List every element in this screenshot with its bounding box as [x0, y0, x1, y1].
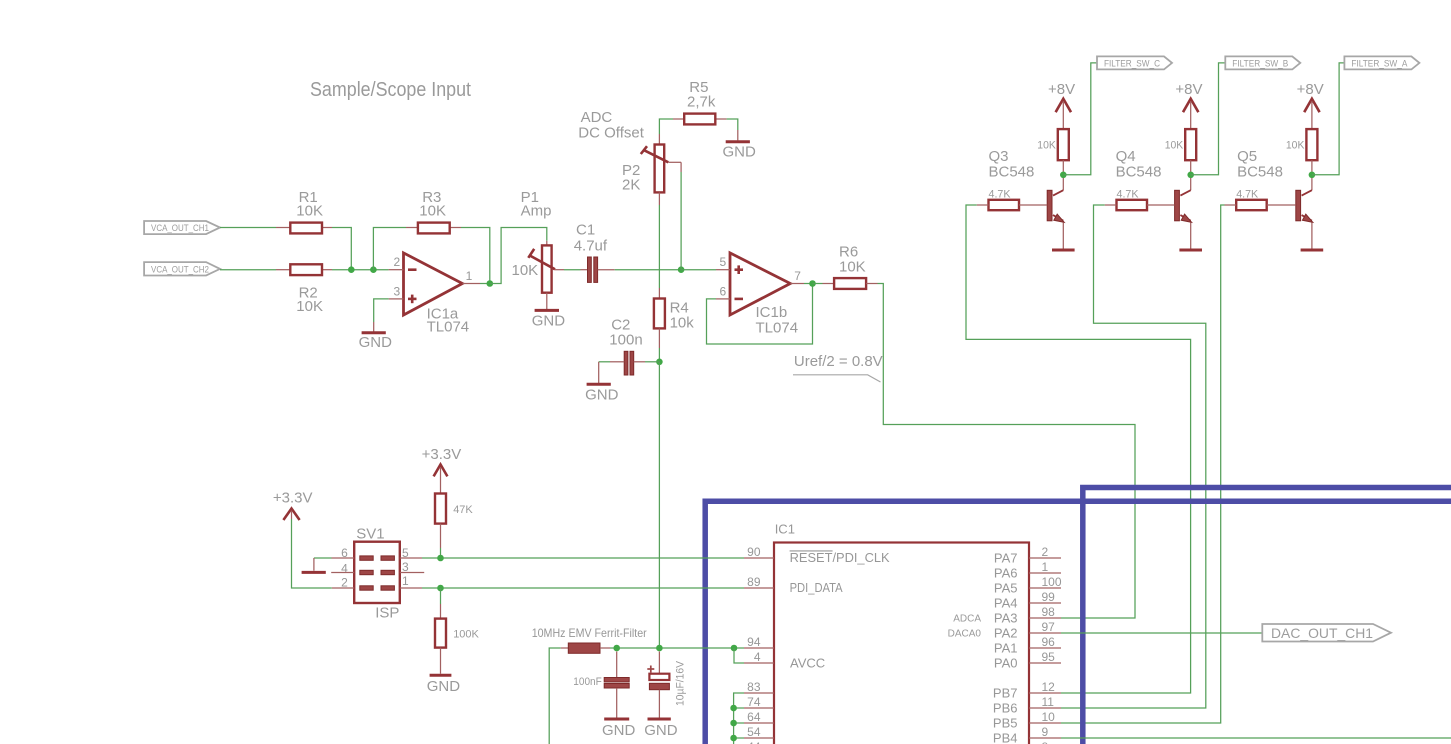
svg-text:10K: 10K: [839, 259, 866, 276]
ground under Q3: [1052, 249, 1075, 252]
pin 6 IC1b: [716, 284, 730, 299]
svg-text:90: 90: [747, 545, 761, 559]
node Q4 collector junction: [1187, 172, 1194, 179]
svg-text:4.7uf: 4.7uf: [574, 238, 608, 255]
svg-text:100n: 100n: [609, 332, 642, 349]
svg-text:11: 11: [1042, 695, 1055, 709]
wire pin1 to output node: [480, 283, 490, 285]
svg-text:+3.3V: +3.3V: [422, 446, 462, 463]
connector flag FILTER_SW_B: [1225, 56, 1300, 69]
svg-text:10K: 10K: [296, 298, 323, 315]
wire pin3 to ground: [374, 299, 389, 332]
resistor 47K: [435, 494, 473, 559]
svg-text:97: 97: [1042, 620, 1056, 634]
ground under C2: [585, 384, 619, 403]
pin 5 SV1: [400, 546, 422, 560]
ferrite bead L1: [561, 643, 610, 653]
svg-text:PA2: PA2: [994, 626, 1018, 641]
wire Q4 collector to FILTER_SW_B: [1191, 63, 1226, 175]
node junction pin5 net: [437, 555, 444, 562]
pin 64: [744, 710, 774, 724]
supply +8V for Q4: [1175, 81, 1202, 129]
supply +3.3V left: [273, 490, 313, 521]
supply +3.3V top: [422, 446, 462, 494]
svg-text:4.7K: 4.7K: [1236, 189, 1259, 201]
ground under 100K: [427, 675, 461, 695]
wire pin7 to node E: [804, 283, 813, 285]
pin 1 PA6: [994, 560, 1061, 581]
svg-text:TL074: TL074: [427, 319, 470, 336]
svg-text:1: 1: [402, 574, 409, 588]
svg-text:GND: GND: [532, 313, 566, 330]
ground under Q4: [1179, 249, 1202, 252]
resistor R1: [290, 189, 323, 233]
svg-text:10K: 10K: [1037, 140, 1056, 152]
pin 3 IC1a: [389, 284, 404, 299]
connector flag DAC_OUT_CH1: [1262, 624, 1391, 642]
capacitor 10uF/16V: [647, 652, 686, 718]
svg-text:10K: 10K: [1286, 140, 1305, 152]
pin 1 SV1: [400, 574, 422, 588]
svg-text:DAC_OUT_CH1: DAC_OUT_CH1: [1271, 625, 1373, 641]
pin 83: [744, 680, 774, 694]
potentiometer P2: [622, 145, 668, 194]
pin 90 RESET/PDI_CLK: [744, 545, 890, 565]
transistor Q3: [989, 148, 1065, 249]
ground under Q5: [1301, 249, 1324, 252]
ground under 100nF: [602, 719, 636, 739]
svg-text:PA6: PA6: [994, 566, 1018, 581]
svg-text:IC1: IC1: [775, 522, 795, 537]
pin 98 PA3 ADCA: [953, 605, 1061, 626]
svg-text:FILTER_SW_C: FILTER_SW_C: [1104, 58, 1160, 68]
node D junction: [656, 359, 663, 366]
wire output to P1 top: [490, 228, 547, 284]
pin 6 SV1: [314, 546, 354, 560]
wire Q4 base to IC1 PB6: [1061, 205, 1206, 708]
node junction pin54: [730, 735, 737, 742]
svg-text:9: 9: [1042, 725, 1049, 739]
connector flag FILTER_SW_A: [1344, 56, 1419, 69]
capacitor C2: [609, 317, 659, 376]
wire C1 to node C: [598, 269, 682, 271]
resistor 10K collector Q4: [1165, 129, 1197, 171]
wire R5 to GND: [727, 119, 738, 140]
pin 54: [744, 725, 774, 739]
wire SV1 pin1 to IC1 PDI_DATA: [422, 587, 744, 589]
wire R2 to op-amp input: [332, 269, 389, 271]
resistor R5 pins: [673, 118, 727, 120]
svg-text:4.7K: 4.7K: [989, 189, 1012, 201]
svg-text:GND: GND: [585, 387, 619, 404]
svg-text:3: 3: [394, 284, 401, 298]
supply +8V for Q3: [1048, 81, 1075, 129]
resistor 4.7K base Q3: [977, 189, 1047, 211]
node output IC1a junction: [487, 280, 494, 287]
svg-text:RESET/PDI_CLK: RESET/PDI_CLK: [790, 550, 890, 565]
pin 11 PB6: [993, 695, 1061, 716]
node junction pin1 net: [437, 585, 444, 592]
transistor Q4: [1116, 148, 1192, 249]
node E junction: [809, 280, 816, 287]
svg-text:PB7: PB7: [993, 686, 1018, 701]
svg-text:FILTER_SW_B: FILTER_SW_B: [1232, 58, 1288, 68]
resistor 4.7K base Q5: [1225, 189, 1296, 211]
connector flag VCA_OUT_CH2: [144, 262, 220, 275]
svg-text:ADC: ADC: [581, 109, 613, 126]
wire R1 to node A: [332, 228, 351, 270]
svg-text:GND: GND: [602, 722, 636, 739]
svg-text:2: 2: [394, 255, 401, 269]
wire R4 to node D: [658, 328, 660, 361]
svg-text:94: 94: [747, 635, 761, 649]
svg-text:95: 95: [1042, 650, 1056, 664]
pin 1 IC1a: [462, 269, 480, 284]
wire P2 bottom to R4: [658, 192, 660, 298]
svg-text:Q4: Q4: [1116, 148, 1136, 165]
svg-text:+8V: +8V: [1048, 81, 1075, 98]
svg-text:ISP: ISP: [375, 605, 399, 622]
svg-text:10K: 10K: [419, 203, 446, 220]
node Q5 collector junction: [1309, 172, 1316, 179]
svg-text:96: 96: [1042, 635, 1056, 649]
svg-text:100K: 100K: [453, 629, 479, 641]
title Sample/Scope Input: [310, 79, 471, 101]
label Uref/2 = 0.8V: [793, 353, 883, 382]
svg-text:SV1: SV1: [356, 525, 384, 542]
node junction pin64: [730, 720, 737, 727]
node junction pin74: [730, 705, 737, 712]
wire C2 to GND: [599, 362, 625, 383]
svg-text:PA7: PA7: [994, 551, 1018, 566]
svg-text:2,7k: 2,7k: [687, 94, 716, 111]
node Q3 collector junction: [1060, 172, 1067, 179]
pin 94: [744, 635, 774, 649]
ground bar at SV1 pin6: [302, 558, 326, 572]
pin 4 SV1: [331, 561, 354, 575]
resistor R2: [290, 264, 323, 315]
wire R3 to output node: [461, 228, 490, 284]
svg-text:7: 7: [794, 269, 801, 283]
svg-text:10µF/16V: 10µF/16V: [675, 660, 687, 706]
pin 3 SV1: [400, 560, 424, 574]
capacitor 100nF: [573, 652, 629, 718]
svg-text:+3.3V: +3.3V: [273, 490, 313, 507]
wire node C to IC1b pin5: [681, 269, 716, 271]
svg-text:Q5: Q5: [1237, 148, 1257, 165]
svg-text:1: 1: [1042, 560, 1049, 574]
svg-text:4: 4: [754, 650, 761, 664]
svg-text:1: 1: [466, 269, 473, 283]
ground under 10uF: [644, 719, 678, 739]
supply +8V for Q5: [1297, 81, 1324, 129]
ground under IC1a: [359, 333, 393, 351]
svg-text:10: 10: [1042, 710, 1056, 724]
node G junction 10uF: [656, 645, 663, 652]
text ADC DC Offset: [578, 109, 644, 142]
svg-text:+8V: +8V: [1297, 81, 1324, 98]
svg-text:PA5: PA5: [994, 581, 1018, 596]
svg-text:4.7K: 4.7K: [1117, 189, 1140, 201]
node H junction AVCC: [731, 645, 738, 652]
connector SV1: [354, 525, 400, 621]
label 10MHz EMV Ferrit-Filter: [532, 626, 647, 640]
pin 9 PB4: [993, 725, 1061, 744]
svg-text:PA3: PA3: [994, 611, 1018, 626]
svg-text:PA0: PA0: [994, 656, 1018, 671]
wire R6 to IC1 PA3: [866, 284, 1135, 619]
pin 89 PDI_DATA: [744, 575, 843, 595]
connector flag FILTER_SW_C: [1097, 56, 1172, 69]
svg-text:GND: GND: [644, 722, 678, 739]
potentiometer P1: [512, 189, 556, 309]
svg-text:Amp: Amp: [521, 203, 552, 220]
svg-text:PA4: PA4: [994, 596, 1018, 611]
svg-text:GND: GND: [427, 678, 461, 695]
wire node B to R3: [373, 228, 406, 270]
svg-text:54: 54: [747, 725, 761, 739]
node F junction 100nF: [613, 645, 620, 652]
pin 7 IC1b: [790, 269, 804, 284]
svg-text:IC1b: IC1b: [756, 304, 788, 321]
svg-text:BC548: BC548: [989, 164, 1035, 181]
node B junction: [370, 266, 377, 273]
resistor R5: [684, 79, 716, 124]
svg-text:GND: GND: [723, 144, 757, 161]
svg-text:8: 8: [1042, 740, 1049, 744]
svg-text:C1: C1: [576, 222, 595, 239]
frame module box A: [705, 501, 1451, 744]
wire ferrite to AVCC net: [610, 647, 744, 649]
IC IC1 microcontroller box: [774, 522, 1029, 744]
svg-text:AVCC: AVCC: [790, 656, 825, 671]
svg-text:Q3: Q3: [989, 148, 1009, 165]
wire AVCC branch to pin4: [734, 648, 744, 663]
svg-text:2: 2: [1042, 545, 1049, 559]
resistor R3 pins: [406, 227, 461, 229]
connector flag VCA_OUT_CH1: [144, 221, 220, 234]
svg-text:PDI_DATA: PDI_DATA: [790, 580, 843, 595]
svg-text:4: 4: [341, 561, 348, 575]
svg-text:10K: 10K: [512, 262, 539, 279]
pin 74: [744, 695, 774, 709]
svg-text:5: 5: [720, 255, 727, 269]
svg-text:10MHz EMV Ferrit-Filter: 10MHz EMV Ferrit-Filter: [532, 626, 647, 640]
svg-text:89: 89: [747, 575, 761, 589]
wire node E to R6: [813, 283, 835, 285]
pin 2 PA7: [994, 545, 1061, 566]
svg-text:2: 2: [341, 575, 348, 589]
ground under P1: [532, 310, 566, 329]
svg-text:10K: 10K: [1165, 140, 1184, 152]
resistor 100K: [435, 588, 480, 674]
svg-text:100nF: 100nF: [573, 676, 602, 688]
svg-text:99: 99: [1042, 590, 1056, 604]
resistor 10K collector Q5: [1286, 129, 1318, 171]
pin 8 PB3 clipped: [1042, 740, 1049, 744]
svg-text:FILTER_SW_A: FILTER_SW_A: [1351, 58, 1407, 68]
svg-text:10K: 10K: [296, 203, 323, 220]
svg-text:64: 64: [747, 710, 761, 724]
transistor Q5: [1237, 148, 1313, 249]
pin 95 PA0: [994, 650, 1061, 671]
wire Q5 base to IC1 PB5: [1061, 205, 1225, 723]
resistor R3: [418, 189, 450, 233]
node C junction: [678, 266, 685, 273]
svg-text:PA1: PA1: [994, 641, 1018, 656]
svg-text:PB4: PB4: [993, 731, 1018, 744]
pin 2 IC1a: [389, 255, 404, 270]
svg-text:+8V: +8V: [1175, 81, 1202, 98]
wire +3.3V to SV1 pin2: [292, 519, 332, 588]
svg-text:83: 83: [747, 680, 761, 694]
op-amp IC1b: [730, 253, 798, 337]
svg-text:Sample/Scope Input: Sample/Scope Input: [310, 79, 471, 101]
node A junction: [348, 266, 355, 273]
wire P1 wiper to C1: [555, 269, 588, 271]
frame module box B: [1083, 488, 1451, 744]
wire Q3 base to IC1 PB7: [966, 205, 1191, 693]
svg-text:PB5: PB5: [993, 716, 1018, 731]
wire feedback IC1b: [707, 284, 813, 345]
svg-text:BC548: BC548: [1237, 164, 1283, 181]
resistor 10K collector Q3: [1037, 129, 1069, 171]
pin 2 SV1: [332, 575, 354, 589]
wire node D down to AVCC net: [658, 362, 660, 648]
wire ferrite left down: [549, 648, 561, 744]
wire ground bus pins 83-54: [734, 693, 744, 744]
pin 100 PA5: [994, 575, 1062, 596]
svg-text:PB6: PB6: [993, 701, 1018, 716]
svg-text:47K: 47K: [453, 504, 473, 516]
resistor R6: [834, 244, 866, 289]
svg-text:100: 100: [1042, 575, 1062, 589]
op-amp IC1a: [404, 253, 470, 336]
ground right of R5: [723, 142, 757, 161]
pin 5 IC1b: [716, 255, 730, 270]
svg-text:ADCA: ADCA: [953, 614, 981, 625]
svg-text:2K: 2K: [622, 177, 640, 194]
wire Q5 collector to FILTER_SW_A: [1312, 63, 1345, 175]
resistor 4.7K base Q4: [1105, 189, 1175, 211]
wire PA2 to DAC_OUT_CH1: [1061, 632, 1262, 634]
capacitor C1: [574, 222, 608, 283]
svg-text:6: 6: [720, 284, 727, 298]
svg-text:Uref/2 = 0.8V: Uref/2 = 0.8V: [794, 353, 883, 370]
resistor R1 pins: [276, 227, 332, 229]
svg-text:TL074: TL074: [756, 320, 799, 337]
wire P2 wiper to node C: [668, 162, 681, 269]
resistor R4: [654, 299, 694, 332]
pin 97 PA2 DACA0: [948, 620, 1061, 641]
svg-text:VCA_OUT_CH1: VCA_OUT_CH1: [151, 223, 209, 233]
wire PB4 off right edge: [1061, 737, 1451, 739]
svg-text:44: 44: [747, 740, 761, 744]
pin 12 PB7: [993, 680, 1061, 701]
svg-text:10k: 10k: [670, 315, 695, 332]
pin 10 PB5: [993, 710, 1061, 731]
svg-text:DC Offset: DC Offset: [578, 125, 644, 142]
svg-text:12: 12: [1042, 680, 1056, 694]
svg-text:74: 74: [747, 695, 761, 709]
wire Q3 collector to FILTER_SW_C: [1063, 63, 1097, 175]
resistor R2 pins: [276, 269, 332, 271]
wire SV1 pin5 to IC1 RESET: [422, 557, 744, 559]
wire VCA_OUT_CH1 to R1: [220, 227, 276, 229]
svg-text:VCA_OUT_CH2: VCA_OUT_CH2: [151, 264, 209, 274]
svg-text:BC548: BC548: [1116, 164, 1162, 181]
pin 96 PA1: [994, 635, 1061, 656]
pin 99 PA4: [994, 590, 1061, 611]
svg-text:GND: GND: [359, 334, 393, 351]
wire VCA_OUT_CH2 to R2: [220, 269, 276, 271]
svg-text:DACA0: DACA0: [948, 629, 982, 640]
svg-text:98: 98: [1042, 605, 1056, 619]
wire R5 to P2 top: [659, 119, 673, 145]
pin 44 clipped: [747, 740, 761, 744]
pin 4 AVCC: [744, 650, 825, 671]
